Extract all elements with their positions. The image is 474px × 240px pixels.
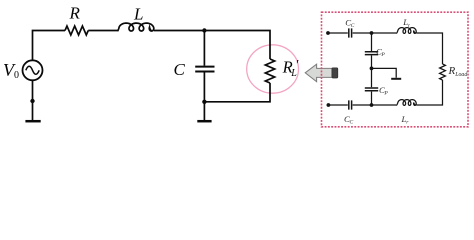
inductor Lr bottom (3 loops) bbox=[396, 100, 416, 106]
inductor Lr top (3 loops) bbox=[396, 28, 416, 34]
wire Lr to right column down bbox=[416, 33, 442, 64]
ground tap wire bbox=[372, 68, 397, 77]
inductor L (3 loops) bbox=[118, 23, 154, 31]
V0 source circle bbox=[23, 60, 43, 80]
wire node to Cc top bbox=[328, 32, 348, 34]
svg-text:Load: Load bbox=[454, 72, 467, 78]
node dot bottom-left bbox=[327, 103, 331, 107]
wire inductor to right corner bbox=[154, 31, 270, 60]
wire bottom rail junction to Cc bottom bbox=[353, 104, 397, 106]
svg-text:R: R bbox=[69, 4, 81, 23]
middle column wire center to Cp2 bbox=[371, 68, 373, 87]
wire Cc bottom to node bbox=[328, 104, 347, 106]
sub-circuit bbox=[328, 28, 445, 110]
capacitor Cc bottom plates bbox=[349, 100, 352, 109]
junction dot on V0 ground wire bbox=[30, 99, 34, 103]
ground bar left bbox=[25, 120, 40, 123]
junction dot top middle bbox=[370, 31, 374, 35]
sine wave in V0 bbox=[26, 66, 39, 74]
ground bar sub bbox=[391, 78, 401, 80]
capacitor Cp top plates bbox=[365, 52, 378, 55]
node dot top-left bbox=[326, 31, 330, 35]
resistor Rload zigzag bbox=[440, 64, 446, 80]
wire Cc to junction to Lr bbox=[353, 32, 397, 34]
middle column top wire bbox=[371, 33, 373, 51]
wire RL' bottom to C bottom junction bbox=[204, 83, 270, 102]
middle column wire to center bbox=[371, 55, 373, 68]
capacitor C branch top wire bbox=[203, 31, 205, 66]
junction dot center bbox=[370, 67, 374, 71]
svg-text:0: 0 bbox=[14, 70, 19, 81]
capacitor C plates bbox=[195, 67, 214, 72]
wire Rload bottom to bottom rail bbox=[416, 80, 442, 105]
wire left vertical and top rail to resistor bbox=[33, 31, 66, 61]
capacitor Cc top plates bbox=[349, 28, 352, 37]
wire V0 bottom to ground bbox=[32, 80, 34, 120]
block arrow bbox=[305, 64, 333, 82]
capacitor Cp bottom plates bbox=[365, 88, 378, 91]
resistor R bbox=[65, 26, 88, 35]
svg-text:P: P bbox=[383, 91, 388, 97]
svg-text:R: R bbox=[448, 65, 456, 77]
svg-text:C: C bbox=[174, 60, 186, 79]
middle column wire to bottom rail bbox=[371, 92, 373, 105]
ground bar C branch bbox=[197, 120, 211, 123]
junction dot bottom of C bbox=[202, 100, 206, 104]
junction dot top of C bbox=[202, 28, 206, 32]
svg-text:L: L bbox=[133, 4, 143, 23]
arrow dark cap bbox=[332, 68, 338, 78]
svg-text:P: P bbox=[380, 52, 385, 58]
junction dot bottom middle bbox=[370, 103, 374, 107]
svg-text:C: C bbox=[350, 120, 354, 126]
pink highlight circle around RL' bbox=[247, 45, 299, 93]
resistor RL' vertical zigzag bbox=[265, 59, 274, 83]
capacitor C bottom wire to ground bbox=[203, 72, 205, 120]
dashed pink box bbox=[322, 12, 469, 127]
svg-text:C: C bbox=[351, 23, 355, 29]
wire resistor to inductor bbox=[88, 30, 117, 32]
